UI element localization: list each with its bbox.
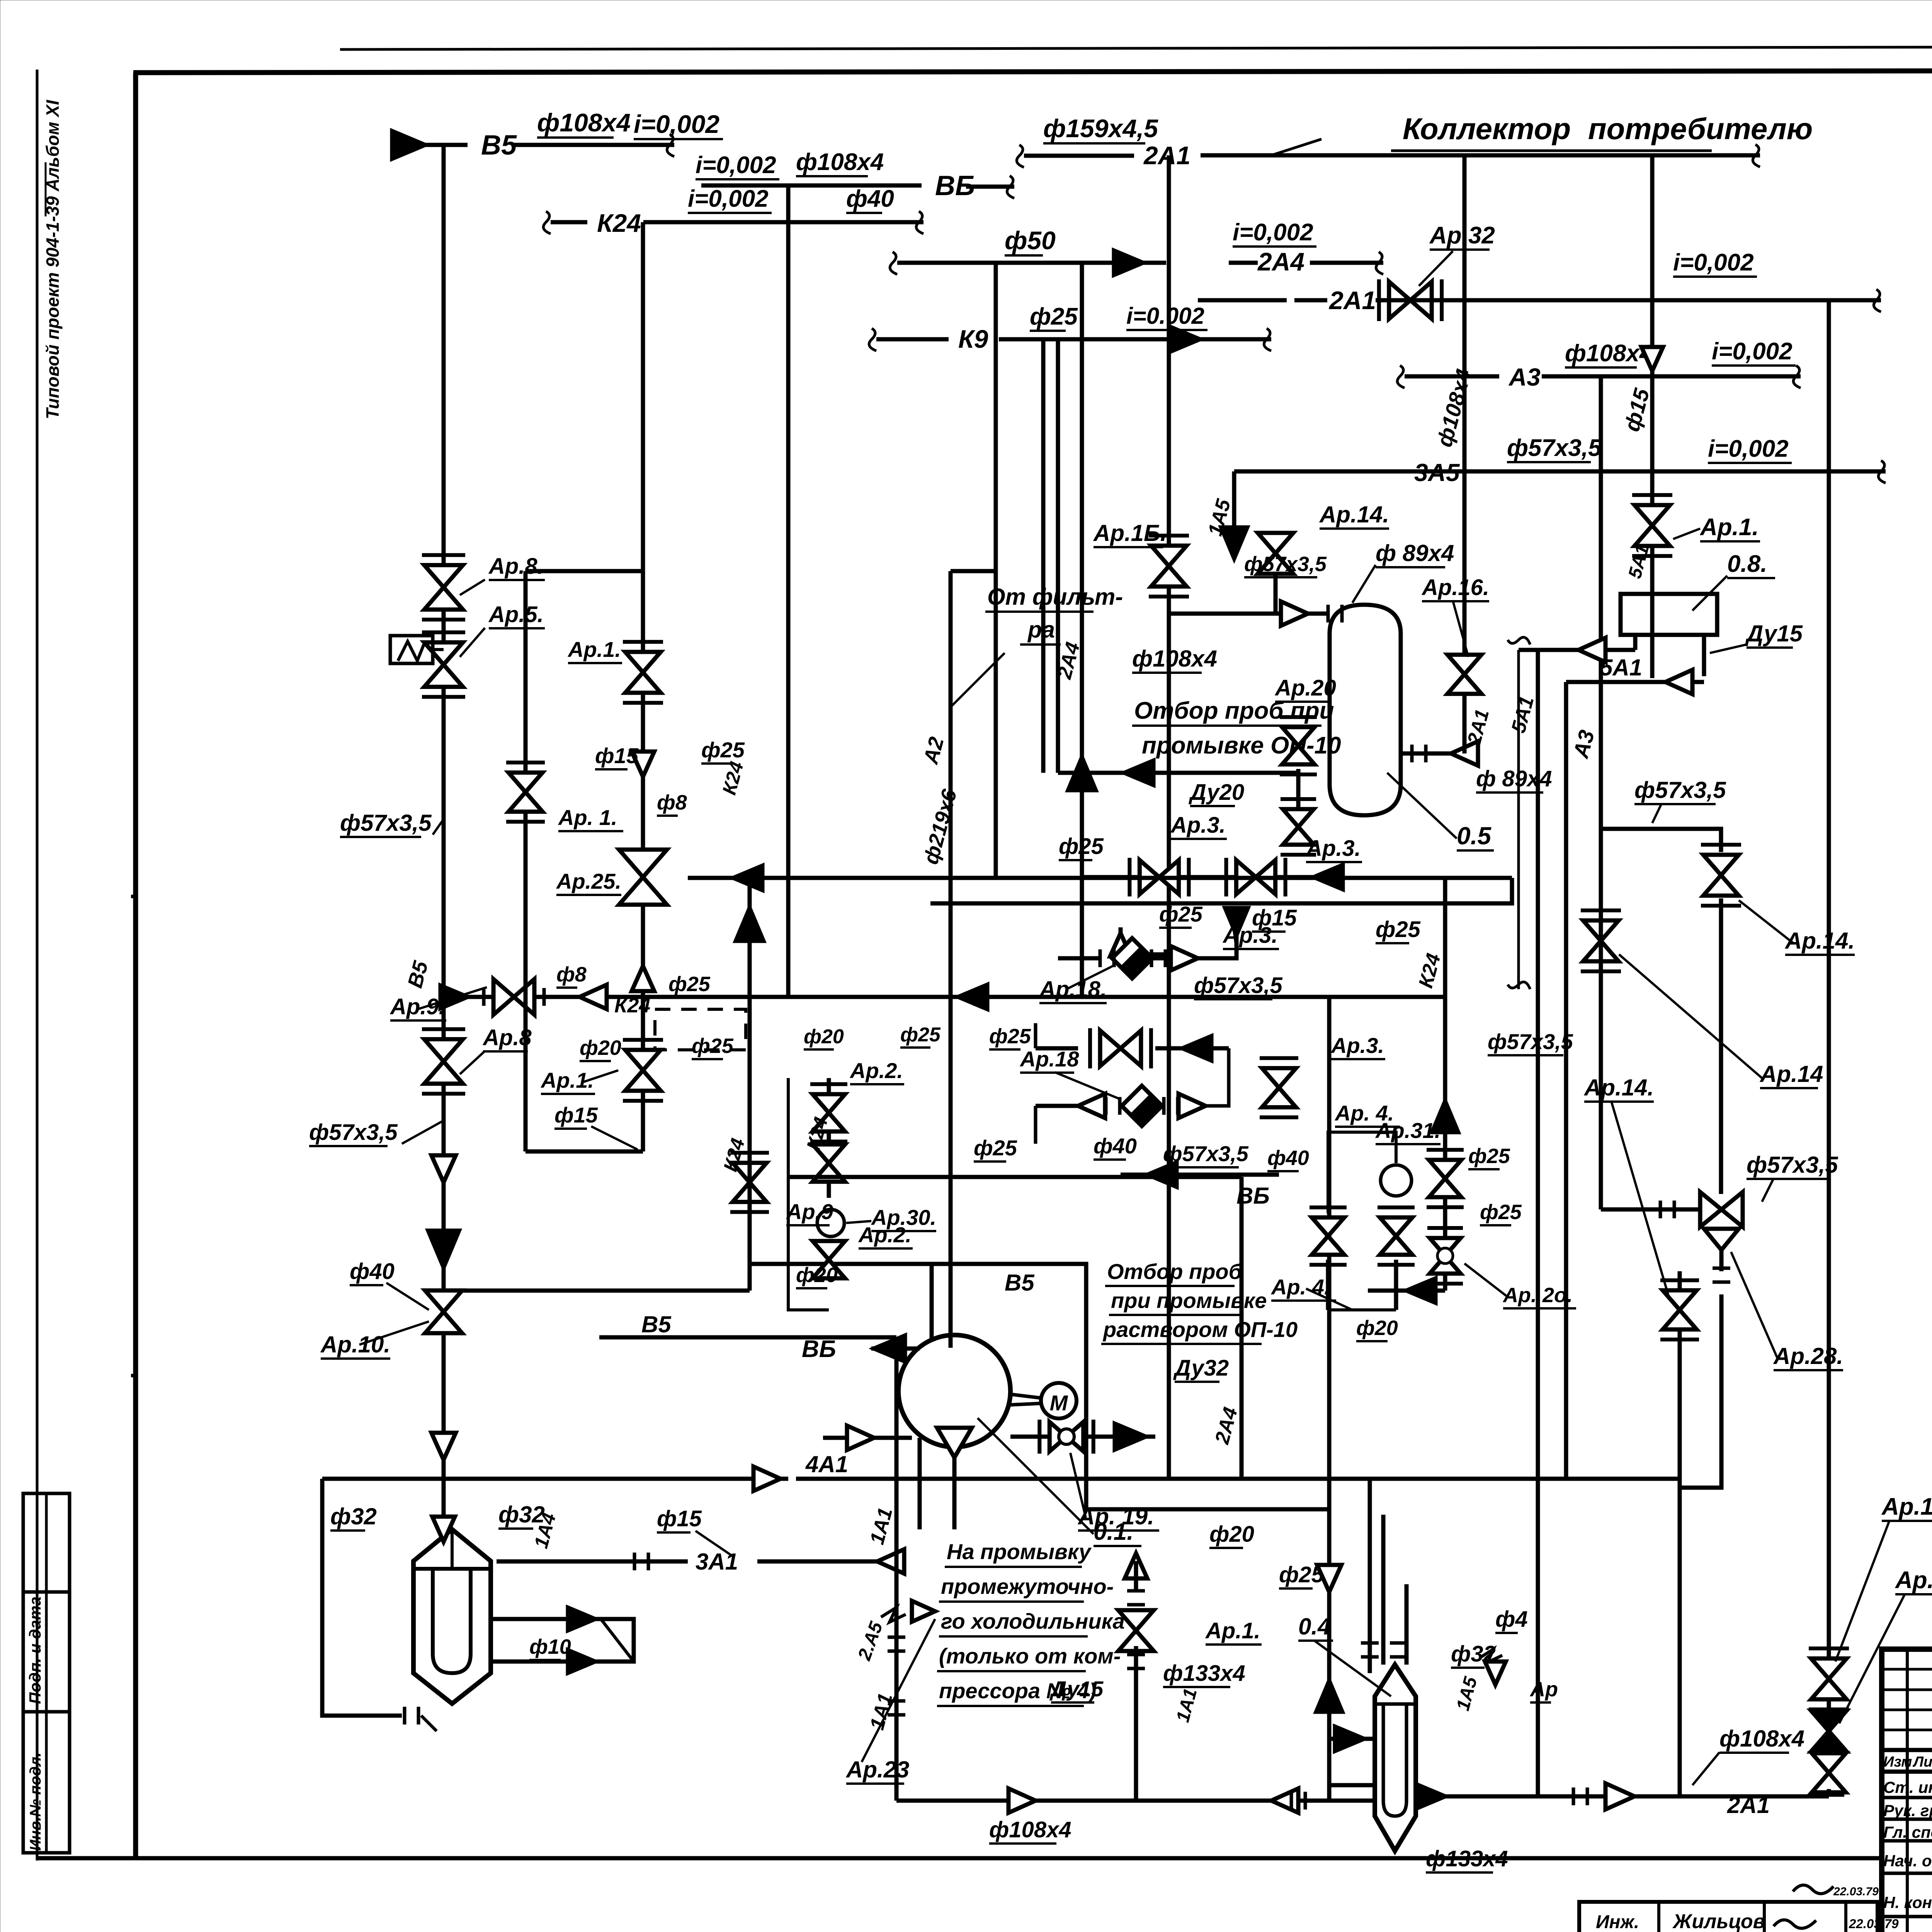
black arrow up on 2A4 riser (1068, 757, 1095, 790)
svg-text:Ар.1.: Ар.1. (1205, 1618, 1260, 1643)
vessel 0.8 cooler (1621, 594, 1717, 635)
node B5 inlet arrow (392, 131, 425, 158)
wire 5A1 upper (1519, 648, 1635, 652)
svg-text:ф25: ф25 (1468, 1145, 1510, 1168)
svg-text:Ар.2.: Ар.2. (849, 1058, 903, 1083)
pipe riser K24 mid (1443, 878, 1447, 997)
title block left table thin rows (1882, 1668, 1932, 1671)
svg-text:Ар: Ар (1529, 1678, 1558, 1701)
valve Ar.14 lower (1678, 1271, 1682, 1488)
gauge Ar.30 (817, 1209, 844, 1236)
dashed tank on K24 line (655, 1009, 746, 1050)
wire f10 branches (491, 1617, 603, 1621)
valve Ar.2 lower (813, 1241, 845, 1260)
svg-text:ф15: ф15 (595, 743, 639, 768)
pipe riser mid-b (641, 571, 645, 1151)
svg-text:Ар.3.: Ар.3. (1305, 836, 1361, 861)
svg-text:ф40: ф40 (1267, 1146, 1309, 1170)
svg-text:Инж.: Инж. (1596, 1912, 1639, 1932)
svg-text:ф133x4: ф133x4 (1163, 1661, 1245, 1686)
wire upper bus f57x35 (688, 876, 1512, 880)
svg-text:Ар.26.: Ар.26. (1895, 1567, 1932, 1594)
svg-text:0.4: 0.4 (1298, 1614, 1330, 1639)
pipe riser f219x6 A2 (949, 571, 953, 1348)
svg-text:i=0,002: i=0,002 (696, 152, 776, 179)
valve Ar.16 bottom stack white (1811, 1658, 1847, 1679)
svg-text:Ар.1Б.: Ар.1Б. (1093, 520, 1167, 546)
svg-text:ф57x3,5: ф57x3,5 (1634, 777, 1726, 803)
open arrow and f32 labels (432, 1517, 455, 1542)
svg-text:го холодильника: го холодильника (941, 1609, 1125, 1633)
k24 riser lower (748, 997, 752, 1291)
wire 3A5 header (1234, 469, 1886, 474)
svg-text:Ар.5.: Ар.5. (488, 602, 544, 627)
svg-text:Ар.9: Ар.9 (786, 1199, 833, 1224)
title block outer border (1882, 1649, 1932, 1932)
pipe riser f108x4 vertical (1463, 155, 1467, 471)
frame left tick marks (131, 1374, 136, 1378)
wire vessel 0.5 outlet right (1401, 752, 1464, 756)
svg-text:Ар.8: Ар.8 (482, 1025, 532, 1050)
vessel 0.5 separator (1330, 605, 1401, 815)
wire f25 sample header (1082, 875, 1330, 879)
filter Ar.18 (1110, 933, 1131, 956)
svg-text:Ар.10.: Ар.10. (320, 1332, 390, 1357)
svg-text:Ар.1.: Ар.1. (1699, 514, 1759, 541)
wire lower jog (1680, 1294, 1721, 1488)
check arrow on f15 riser (1641, 347, 1663, 371)
svg-text:22.03.79: 22.03.79 (1833, 1885, 1879, 1898)
wire lower bus f15 (930, 878, 1512, 903)
svg-text:3А1: 3А1 (696, 1549, 738, 1575)
wire 4A1 suction (823, 1436, 912, 1440)
wire 1A1 bottom header f108x4 (896, 1799, 1329, 1803)
svg-text:Н. контр.: Н. контр. (1883, 1893, 1932, 1912)
wire f25-f20 sub (1121, 1173, 1279, 1177)
valve on A3 riser mid (1583, 920, 1619, 941)
compressor inlet cone (937, 1428, 972, 1458)
svg-text:Ар.25.: Ар.25. (556, 869, 621, 893)
svg-text:Ар.3.: Ар.3. (1170, 813, 1226, 838)
wire B5 lower elbow (444, 1289, 750, 1293)
svg-text:Ар.23: Ар.23 (845, 1757, 909, 1782)
svg-text:ф32: ф32 (330, 1503, 377, 1529)
svg-text:ф57x3,5: ф57x3,5 (1194, 973, 1282, 998)
vessel 0.4 outlet right (1416, 1794, 1829, 1799)
svg-text:ф57x3,5: ф57x3,5 (1507, 435, 1602, 461)
pipe riser 2A1 long right (1827, 300, 1831, 1789)
wire A3 branch to Ar.14 (1601, 829, 1721, 852)
svg-text:ф8: ф8 (657, 791, 687, 814)
svg-text:Лист: Лист (1912, 1754, 1932, 1770)
wire vessel 0.5 inlet f108x4 (1167, 595, 1171, 614)
svg-text:2А1: 2А1 (1143, 141, 1190, 170)
wire K9 header (869, 328, 876, 351)
svg-text:ф20: ф20 (796, 1264, 838, 1287)
wire f25/f40 mid header B6 (788, 1175, 1242, 1179)
svg-text:ф20: ф20 (804, 1026, 844, 1048)
svg-text:Ду20: Ду20 (1188, 780, 1244, 805)
wire loop around Ar column (788, 1078, 829, 1310)
svg-text:ф25: ф25 (1059, 834, 1104, 859)
wire 2A1 top (1017, 145, 1024, 167)
svg-text:ВБ: ВБ (802, 1336, 836, 1362)
wire 4A1 header (322, 1477, 788, 1481)
svg-text:i=0.002: i=0.002 (1126, 303, 1204, 329)
svg-text:ф25: ф25 (974, 1136, 1017, 1160)
valve pair Ar.2 col (827, 1078, 831, 1198)
svg-text:i=0,002: i=0,002 (688, 185, 769, 212)
valve Ar.9 k24 col (733, 1163, 767, 1182)
svg-text:Ар.32: Ар.32 (1429, 222, 1495, 249)
svg-text:Ар. 2о.: Ар. 2о. (1502, 1284, 1573, 1307)
svg-text:5А1: 5А1 (1600, 655, 1642, 680)
valve Ar.3 sampling pair (1296, 769, 1301, 808)
valve Ar.3 mid right (1262, 1068, 1296, 1088)
svg-text:при промывке: при промывке (1111, 1288, 1267, 1313)
svg-text:Ст. инж.: Ст. инж. (1883, 1778, 1932, 1796)
svg-text:ф57x3,5: ф57x3,5 (309, 1120, 398, 1145)
arrows into vessel 0.4 (1329, 1737, 1375, 1741)
valve Ar.8 B5 trunk (424, 565, 463, 588)
svg-text:ф 89x4: ф 89x4 (1376, 540, 1454, 566)
svg-text:М: М (1050, 1391, 1068, 1415)
wire 5A1 lower (1566, 680, 1704, 684)
svg-text:Подп. и дата: Подп. и дата (26, 1597, 44, 1704)
pipe riser f15 (1650, 155, 1655, 678)
vessel 0.4 separator (1375, 1665, 1416, 1851)
svg-text:ф4: ф4 (1495, 1607, 1528, 1632)
svg-text:Гл. спец.: Гл. спец. (1883, 1823, 1932, 1841)
svg-text:ф57x3,5: ф57x3,5 (1747, 1152, 1838, 1178)
svg-text:ф133x4: ф133x4 (1426, 1846, 1508, 1871)
svg-text:К24: К24 (597, 209, 641, 237)
svg-text:Ар.28.: Ар.28. (1773, 1343, 1843, 1369)
wire filter bypass loop f25 (1121, 927, 1182, 954)
pipe riser 5A1 left (1536, 650, 1540, 1796)
svg-text:ф40: ф40 (1094, 1134, 1137, 1158)
valve Ar.1 bottom with arrows (1125, 1553, 1148, 1578)
break mark 2A5 (881, 1607, 906, 1622)
svg-text:ф108x4: ф108x4 (989, 1817, 1071, 1842)
wire 2A4 bottom jog (1242, 1477, 1329, 1481)
vessel 0.4 top pipes (1381, 1515, 1386, 1665)
svg-text:ф25: ф25 (1480, 1201, 1522, 1224)
label 5A1 riser (1650, 558, 1655, 594)
vessel lower-left separator (413, 1529, 491, 1704)
f40 label and valve Ар.10 on B5 trunk (432, 1155, 456, 1182)
title block header row (1882, 1748, 1932, 1752)
svg-text:Типовой проект 904-1-39 Аль: Типовой проект 904-1-39 Альбом XI (43, 100, 63, 419)
wire A3 header (1397, 366, 1405, 388)
wire collector main (1201, 153, 1760, 158)
valve Ar.9 check (493, 979, 514, 1015)
wire into 0.4 from 25 riser (1329, 1799, 1375, 1803)
svg-text:ф25: ф25 (900, 1024, 941, 1046)
break mark 1A5r (1480, 1649, 1502, 1662)
svg-text:От фильт-: От фильт- (987, 584, 1123, 610)
wire 5A1 jog mid (1517, 650, 1520, 989)
pipe riser 1A1 (895, 1337, 899, 1801)
pipe riser from VB header (786, 185, 791, 997)
paper top edge line (340, 46, 1932, 49)
svg-text:22.03.79: 22.03.79 (1849, 1917, 1899, 1931)
pipe riser B5 trunk (442, 145, 446, 1529)
svg-text:ф159x4,5: ф159x4,5 (1043, 114, 1158, 143)
svg-text:0.8.: 0.8. (1727, 551, 1767, 577)
pipe riser from K24 header (641, 222, 645, 997)
valve Ar.8 lower on B5 trunk (424, 1039, 463, 1062)
svg-text:Нач. отд.: Нач. отд. (1883, 1852, 1932, 1870)
svg-text:Ар.14: Ар.14 (1759, 1061, 1823, 1087)
valve Ar.16 right riser (1447, 655, 1481, 674)
svg-text:Отбор проб: Отбор проб (1107, 1259, 1243, 1284)
svg-text:промежуточно-: промежуточно- (941, 1574, 1114, 1599)
svg-text:ф20: ф20 (1209, 1522, 1254, 1547)
svg-text:2А1: 2А1 (1328, 286, 1376, 315)
valve Ar.1 mid-b (625, 652, 661, 672)
wire B6 outlet left (871, 1347, 920, 1351)
open arrow B5 trunk low (432, 1433, 456, 1460)
svg-text:На промывку: На промывку (947, 1539, 1092, 1564)
gauge Ar.31 cluster (1381, 1165, 1412, 1196)
svg-text:Ар. 4.: Ар. 4. (1334, 1101, 1394, 1125)
partial stamp row left of title block (1793, 1885, 1833, 1894)
svg-text:ф 89x4: ф 89x4 (1476, 766, 1552, 791)
svg-text:ф108x4: ф108x4 (1565, 340, 1653, 367)
pipe riser A3 branch (1599, 376, 1603, 829)
svg-text:Ар.16.: Ар.16. (1881, 1493, 1932, 1520)
svg-text:2А4: 2А4 (1257, 247, 1304, 276)
svg-text:Ар.16.: Ар.16. (1421, 575, 1489, 600)
svg-text:Ду15: Ду15 (1745, 621, 1803, 646)
pipe feed A2b to compressor (930, 1264, 934, 1341)
pipe riser K9 branch (1041, 339, 1046, 773)
svg-text:i=0,002: i=0,002 (1708, 435, 1789, 462)
filter Ar.18 second (1036, 1104, 1105, 1108)
wire K24 lower header (444, 995, 1445, 999)
svg-text:В5: В5 (641, 1311, 672, 1337)
drawing frame left border (133, 73, 138, 1858)
svg-text:3А5: 3А5 (1414, 459, 1460, 486)
svg-text:Ар.1.: Ар.1. (567, 637, 621, 662)
svg-text:промывке ОП-10: промывке ОП-10 (1142, 732, 1341, 759)
svg-text:ф50: ф50 (1005, 226, 1056, 255)
valve Ar.19 outlet (1010, 1435, 1155, 1439)
svg-text:Жильцов: Жильцов (1672, 1910, 1765, 1932)
svg-text:Ар.14.: Ар.14. (1784, 928, 1855, 954)
svg-text:ф10: ф10 (529, 1635, 571, 1658)
wire B5 into compressor (895, 1337, 899, 1349)
svg-text:Инв.№ подл.: Инв.№ подл. (27, 1752, 44, 1851)
svg-text:ф15: ф15 (657, 1506, 702, 1531)
svg-text:Коллектор: Коллектор (1403, 112, 1571, 146)
svg-text:i=0,002: i=0,002 (1673, 249, 1754, 276)
svg-text:Изм: Изм (1883, 1754, 1912, 1770)
valve Ar.26 bottom stack black (1811, 1711, 1847, 1731)
wire sample return to vessel (1206, 927, 1236, 958)
wire 3A1 header (497, 1560, 688, 1564)
svg-text:ф108x4: ф108x4 (537, 108, 631, 137)
paper left edge line (36, 70, 39, 1861)
open arrow up mid-b2 (632, 966, 655, 991)
svg-text:Ар.20: Ар.20 (1274, 675, 1336, 701)
svg-text:В5: В5 (1005, 1270, 1035, 1296)
svg-text:ф108x4: ф108x4 (1719, 1726, 1804, 1752)
wire Du15 outlet (1633, 635, 1638, 650)
svg-text:ф15: ф15 (554, 1103, 598, 1127)
wire K24 header (543, 211, 551, 234)
svg-text:Ар.8.: Ар.8. (488, 554, 544, 579)
svg-text:0.5: 0.5 (1457, 822, 1492, 850)
left margin bottom stamp table (23, 1493, 70, 1853)
valve bottom stack white 2 (1812, 1753, 1846, 1773)
bypass drop to bus (1034, 1106, 1037, 1144)
valve Ar.25 big (619, 850, 667, 877)
wire box top (526, 569, 643, 573)
svg-text:Ар.14.: Ар.14. (1583, 1075, 1654, 1100)
svg-text:потребителю: потребителю (1588, 112, 1813, 146)
valve bottom K24 (1427, 1228, 1463, 1284)
wire B5 header to Du32 loop (750, 1264, 1329, 1509)
valve Ar.1 mid-a (509, 772, 543, 792)
pipe K9 elbow (1056, 339, 1060, 773)
svg-text:ф25: ф25 (692, 1034, 734, 1058)
svg-text:Ар.14.: Ар.14. (1319, 502, 1389, 527)
valve 2A1 header check valve (1389, 282, 1410, 319)
svg-text:Ду32: Ду32 (1173, 1355, 1229, 1381)
wire B5 upper jog (599, 1335, 896, 1340)
vessel frame box (322, 1479, 402, 1716)
bottom extra stamp table (1579, 1902, 1878, 1932)
valve pair on K24 right (1429, 1160, 1461, 1179)
valve Ar.20 sampling (1282, 727, 1315, 746)
valve Ar.16 on 2A4 riser (1151, 546, 1187, 566)
wire 2A1 to title block corner (1827, 1789, 1831, 1796)
valve Ar.1 lower on K24 riser (625, 1050, 661, 1070)
svg-text:ф25: ф25 (1030, 303, 1078, 330)
drawing frame bottom border (37, 1856, 1882, 1861)
svg-text:ф20: ф20 (1356, 1316, 1398, 1340)
pipe stub 1A5 down from 3A5 (1232, 471, 1236, 549)
box bottom wire (526, 1150, 643, 1154)
valve pair on bypass 2 (1100, 1031, 1121, 1066)
svg-text:Ар. 1.: Ар. 1. (558, 805, 617, 830)
svg-text:ф108x4: ф108x4 (796, 149, 884, 175)
actuator box (390, 636, 433, 663)
svg-text:i=0,002: i=0,002 (634, 110, 719, 138)
svg-text:ф25: ф25 (701, 738, 745, 762)
svg-text:Рук. гр.: Рук. гр. (1883, 1801, 1932, 1820)
wire Du20 line (1058, 771, 1298, 775)
valve Ar.5 B5 trunk with actuator (424, 643, 463, 665)
pipe riser 2A4 main (1167, 155, 1171, 1480)
svg-text:В5: В5 (481, 130, 517, 161)
wire 2A4 right header (1198, 298, 1287, 303)
svg-text:ф57x3,5: ф57x3,5 (340, 810, 432, 836)
svg-text:Ар.3.: Ар.3. (1330, 1033, 1384, 1058)
title block left table columns (1906, 1649, 1909, 1932)
svg-text:i=0,002: i=0,002 (1233, 219, 1313, 246)
svg-text:ф108x4: ф108x4 (1132, 646, 1217, 672)
pipe riser f50-b (1080, 263, 1084, 997)
svg-text:Ар.2.: Ар.2. (858, 1223, 912, 1247)
riser f25 down (1327, 997, 1332, 1801)
motor M circle (1041, 1383, 1077, 1418)
box top wire A2 (951, 569, 996, 573)
svg-text:Ар.18: Ар.18 (1019, 1047, 1079, 1071)
valve Ar.3 right (1236, 860, 1256, 894)
svg-text:ф8: ф8 (556, 963, 587, 986)
svg-text:Ар.9.: Ар.9. (389, 994, 445, 1019)
svg-text:ф15: ф15 (1252, 905, 1297, 930)
svg-text:К9: К9 (958, 325, 988, 353)
black arrow K24 (1432, 1101, 1458, 1132)
riser 2A4 lower part (1240, 1177, 1244, 1479)
svg-text:раствором ОП-10: раствором ОП-10 (1102, 1317, 1298, 1342)
wire B5 header (425, 143, 468, 147)
valve Ar.14 stack (1258, 533, 1293, 553)
svg-text:ф57x3,5: ф57x3,5 (1488, 1029, 1573, 1054)
pipe riser vessel outlet to 2A1 (1463, 300, 1467, 753)
svg-text:2А1: 2А1 (1727, 1792, 1770, 1818)
svg-text:А3: А3 (1508, 363, 1541, 391)
svg-text:ф25: ф25 (1376, 917, 1421, 942)
pipe riser K24 right (1443, 997, 1447, 1291)
svg-text:Ду15: Ду15 (1049, 1677, 1104, 1701)
valve Ar.14 branch (1703, 855, 1739, 875)
pipe riser to 2A1 bottom (1678, 1488, 1682, 1796)
pipe riser f50-a (994, 263, 998, 877)
svg-text:(только от ком-: (только от ком- (939, 1644, 1121, 1668)
valve Ar.3 left (1139, 860, 1159, 894)
svg-text:i=0,002: i=0,002 (1712, 338, 1793, 365)
svg-text:ф40: ф40 (846, 185, 894, 212)
compressor 0.1 circle (898, 1335, 1010, 1447)
three-way valve Ar.28 (1599, 829, 1603, 1209)
svg-text:4А1: 4А1 (805, 1451, 848, 1477)
svg-text:ра: ра (1027, 617, 1055, 643)
wire f50 header (890, 252, 897, 274)
open arrow down mid-b (632, 752, 655, 777)
filter cluster 2 f25 bypass (1034, 1023, 1037, 1048)
pipe riser mid-a (524, 571, 528, 1151)
svg-text:ф20: ф20 (580, 1036, 621, 1060)
valve Ar.1 on f15 (1634, 505, 1670, 526)
svg-text:ф57x3,5: ф57x3,5 (1244, 553, 1327, 576)
svg-text:ф40: ф40 (350, 1259, 395, 1284)
wire VB header upper (701, 184, 922, 188)
black triangle on 1940 (736, 908, 763, 941)
svg-text:ф25: ф25 (668, 973, 711, 996)
svg-text:ф25: ф25 (989, 1025, 1031, 1048)
drawing frame top border (133, 70, 1932, 73)
